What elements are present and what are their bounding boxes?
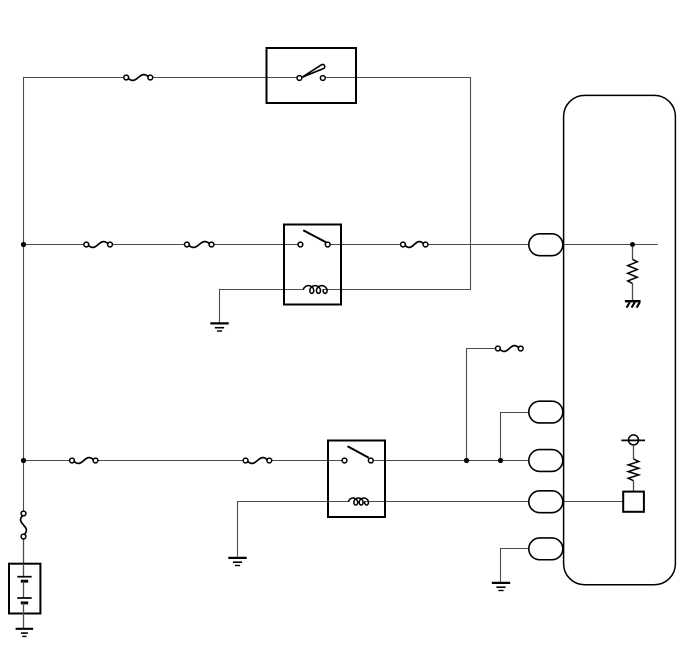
node: bottom row / pin 2 branch [498,458,503,463]
wire: pin 5 ground pigtail [501,548,529,582]
connector pin 2 [529,401,563,423]
node: battery rail / bottom row [21,458,26,463]
relay K1 contacts [298,230,330,247]
wire: K2 coil line to pin 4 and module load [238,501,624,503]
fuse F5 [70,458,98,464]
connector pin 3 [529,450,563,472]
node: battery rail / mid row [21,242,26,247]
wire: K2 switch output to pin 3 [373,460,563,462]
wire: switch output drop to relay K1 coil [341,77,471,290]
relay K2 contacts [342,446,373,463]
relay K2 box [328,441,385,518]
relay K1 box [284,225,341,305]
wire: middle row to pin A [24,244,658,246]
ground: relay K1 coil [210,323,228,331]
fuse F1 [124,75,153,81]
module ECU outline [564,95,676,584]
battery BT1 box [9,564,40,614]
connector pin A [529,234,563,256]
node: pin A net junction [630,242,635,247]
fuse F4 [401,242,428,248]
wire: K2 coil left ground drop [237,501,239,557]
ground: relay K2 coil [228,558,246,566]
ground: pin 5 [492,583,510,591]
fuse F2 [84,242,113,248]
fuse F6 [243,458,271,464]
connector pin 4 [529,491,563,513]
switch S1 contacts and lever [297,64,325,80]
wire: branch up to pin 2 [500,412,529,461]
wire: K1 coil to ground [220,289,285,323]
node: bottom row / open fuse branch [464,458,469,463]
ground: battery negative [16,629,33,637]
connector pin 5 [529,538,563,560]
fuse F7 (open spare) [496,346,524,352]
wire: bottom row battery to relay K2 [24,460,343,462]
relay K1 coil [303,286,327,294]
fuse F8 (battery main, vertical) [21,511,27,539]
resistor R2 (sensor series) [628,445,639,492]
wire: battery top lead [23,539,25,565]
relay K2 coil [349,498,369,505]
battery BT1 cells [17,564,31,629]
fuse F3 [185,242,214,248]
wire: left battery rail [23,77,25,511]
sensor lamp symbol (circle with bar) [621,435,645,445]
wire: K1 coil stubs inside box [284,289,341,291]
actuator box U1 [623,492,644,512]
wire: branch up to open fuse [466,348,496,461]
ground: chassis ground inside module [625,301,641,307]
switch S1 box [267,48,357,103]
resistor R1 (module internal pull-down) [628,247,638,301]
wire: battery feed top rail [24,77,471,79]
